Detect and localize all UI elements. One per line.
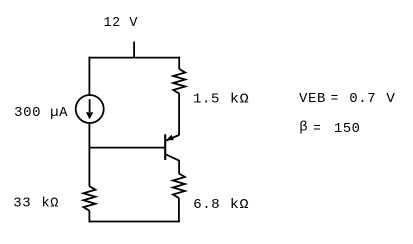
- svg-text:kΩ: kΩ: [42, 195, 60, 211]
- svg-text:VEB: VEB: [299, 91, 326, 107]
- svg-text:6.8: 6.8: [193, 197, 220, 213]
- transistor Q1 emitter arrow (PNP): [166, 135, 174, 141]
- svg-text:150: 150: [334, 121, 361, 137]
- current source I1 arrow: [89, 99, 91, 112]
- wire left bottom: [88, 211, 90, 223]
- svg-text:β: β: [299, 120, 308, 136]
- wire right bottom: [178, 198, 180, 223]
- resistor 33k zigzag: [83, 186, 95, 211]
- svg-text:=: =: [331, 91, 339, 107]
- transistor Q1 base bar: [164, 134, 166, 160]
- wire base: [89, 147, 166, 149]
- wire left branch upper: [88, 57, 90, 95]
- svg-text:0.7: 0.7: [349, 91, 376, 107]
- current source I1 circle: [76, 95, 104, 123]
- wire collector: [165, 154, 179, 173]
- wire supply stub: [133, 42, 135, 59]
- wire bottom rail: [89, 221, 180, 223]
- wire emitter vertical: [178, 93, 180, 135]
- wire right upper: [178, 57, 180, 69]
- svg-text:12 V: 12 V: [104, 15, 139, 31]
- transistor Q1 emitter diagonal: [166, 135, 179, 141]
- svg-text:kΩ: kΩ: [230, 91, 249, 107]
- wire top rail: [89, 57, 181, 59]
- svg-text:33: 33: [13, 195, 31, 211]
- wire left branch lower: [88, 124, 90, 187]
- svg-text:=: =: [313, 121, 321, 137]
- resistor 6.8k zigzag: [173, 174, 185, 199]
- svg-text:300 µA: 300 µA: [14, 105, 68, 121]
- svg-text:1.5: 1.5: [193, 91, 220, 107]
- svg-text:kΩ: kΩ: [230, 197, 249, 213]
- svg-text:V: V: [386, 91, 395, 107]
- resistor 1.5k zigzag: [173, 69, 185, 94]
